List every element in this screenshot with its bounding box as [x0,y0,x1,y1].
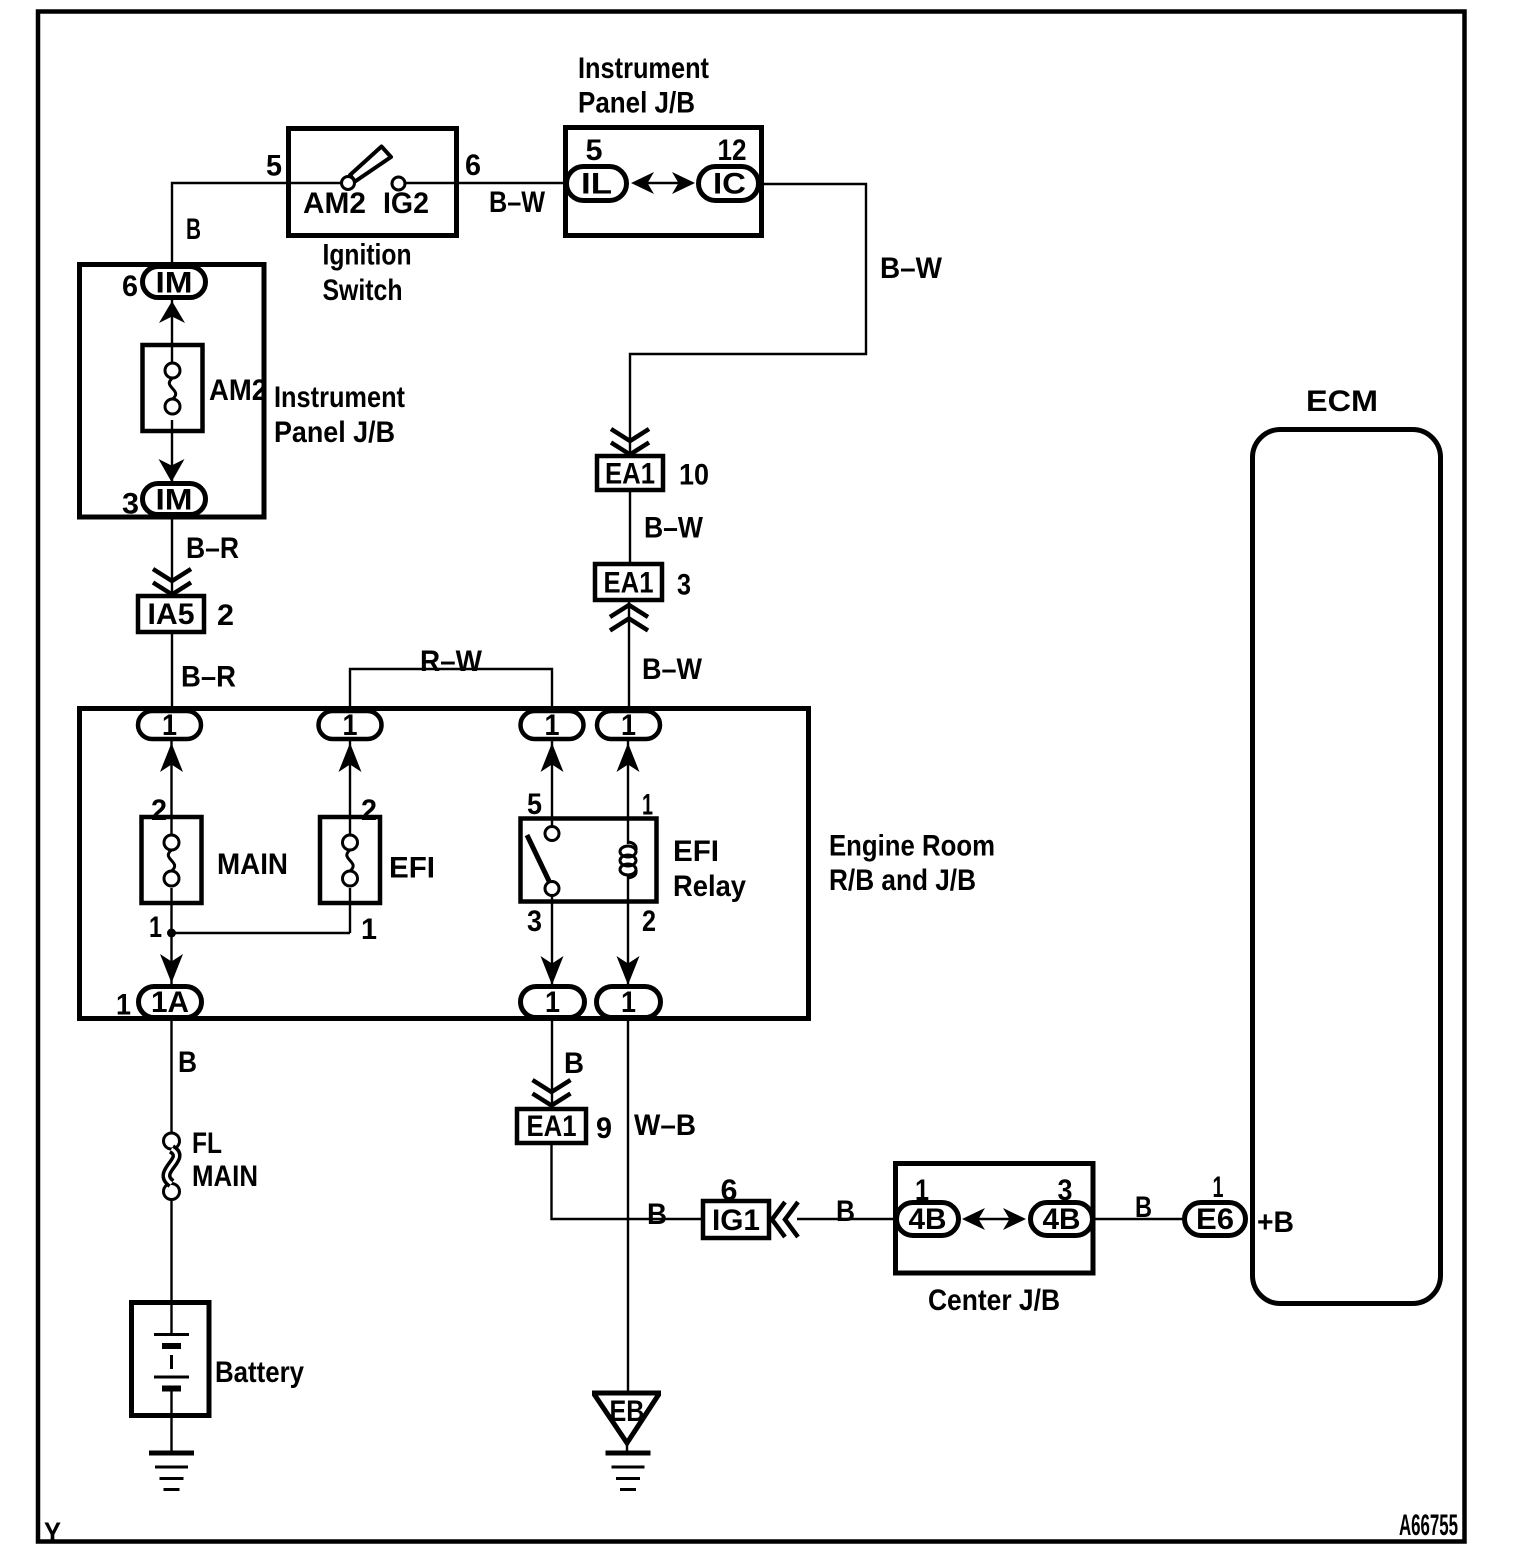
svg-text:B: B [564,1047,584,1080]
svg-text:1: 1 [545,986,560,1019]
svg-text:Center J/B: Center J/B [928,1284,1060,1317]
svg-text:B: B [186,213,201,246]
svg-text:A66755: A66755 [1399,1509,1458,1542]
svg-text:EFI: EFI [389,852,435,885]
svg-text:B–W: B–W [642,653,703,686]
svg-text:Panel J/B: Panel J/B [578,87,695,120]
svg-text:AM2: AM2 [209,374,267,407]
svg-text:Instrument: Instrument [274,381,405,414]
svg-text:2: 2 [361,794,377,827]
svg-text:B: B [1135,1191,1152,1224]
svg-text:B–W: B–W [880,252,943,285]
svg-text:R–W: R–W [420,645,483,678]
svg-text:4B: 4B [909,1203,947,1236]
svg-text:AM2: AM2 [303,187,366,220]
svg-text:B–R: B–R [181,661,236,694]
svg-text:IG1: IG1 [712,1204,760,1237]
svg-text:3: 3 [677,569,691,602]
svg-text:Instrument: Instrument [578,52,709,85]
svg-text:3: 3 [527,905,542,938]
svg-text:1: 1 [545,709,560,742]
svg-text:1: 1 [642,789,653,822]
svg-text:2: 2 [217,599,234,632]
svg-text:5: 5 [266,150,282,183]
svg-text:1: 1 [621,709,636,742]
svg-text:1A: 1A [151,986,189,1019]
svg-text:2: 2 [642,905,656,938]
svg-text:B: B [647,1198,667,1231]
svg-text:EA1: EA1 [527,1110,577,1143]
svg-text:Relay: Relay [673,870,746,903]
svg-text:B–W: B–W [644,512,704,545]
svg-text:1: 1 [621,986,636,1019]
svg-text:ECM: ECM [1306,385,1378,418]
svg-text:9: 9 [596,1112,612,1145]
svg-text:6: 6 [465,149,481,182]
svg-text:IA5: IA5 [148,598,195,631]
svg-text:5: 5 [586,134,603,167]
svg-text:EA1: EA1 [604,567,654,600]
svg-text:W–B: W–B [634,1109,696,1142]
svg-text:B–R: B–R [186,532,239,565]
svg-text:6: 6 [122,270,138,303]
svg-text:5: 5 [527,788,542,821]
svg-text:IL: IL [581,168,612,201]
svg-text:IM: IM [156,267,193,300]
svg-text:Ignition: Ignition [323,239,412,272]
svg-text:6: 6 [721,1174,738,1207]
svg-text:1: 1 [1213,1171,1224,1204]
svg-text:Switch: Switch [323,274,403,307]
svg-text:MAIN: MAIN [192,1160,258,1193]
svg-text:E6: E6 [1196,1203,1234,1236]
svg-text:1: 1 [149,911,162,944]
svg-text:4B: 4B [1043,1203,1081,1236]
svg-text:EA1: EA1 [605,458,655,491]
svg-text:MAIN: MAIN [217,848,288,881]
svg-text:1: 1 [361,913,377,946]
svg-text:3: 3 [122,488,139,521]
svg-text:2: 2 [151,794,167,827]
svg-text:10: 10 [679,459,709,492]
svg-text:B: B [836,1195,855,1228]
svg-text:B: B [178,1046,197,1079]
svg-text:IC: IC [713,168,746,201]
svg-text:Y: Y [44,1517,61,1550]
svg-text:12: 12 [718,134,747,167]
svg-text:Engine Room: Engine Room [829,830,995,863]
svg-text:IM: IM [156,484,193,517]
svg-text:1: 1 [116,989,131,1022]
svg-text:EB: EB [610,1395,645,1428]
svg-text:R/B and J/B: R/B and J/B [829,864,976,897]
svg-text:FL: FL [192,1127,222,1160]
svg-text:Battery: Battery [215,1356,304,1389]
svg-text:1: 1 [162,709,177,742]
svg-text:EFI: EFI [673,835,719,868]
svg-text:1: 1 [343,709,358,742]
svg-text:+B: +B [1257,1206,1294,1239]
svg-text:B–W: B–W [489,186,546,219]
svg-text:Panel J/B: Panel J/B [274,416,395,449]
svg-text:IG2: IG2 [383,187,429,220]
